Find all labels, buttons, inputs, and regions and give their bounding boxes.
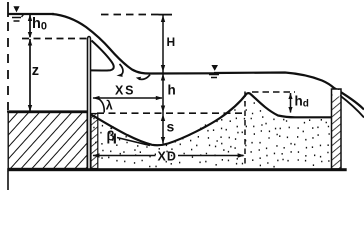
svg-text:XS: XS — [115, 84, 135, 98]
wire left wall extension below floor — [7, 171, 9, 190]
component weir gate plate — [88, 37, 91, 170]
svg-text:s: s — [167, 119, 175, 135]
dimension z vertical line with arrows — [28, 39, 32, 112]
wire dashed dune crest level line for hd — [252, 91, 295, 93]
wire tailwater surface over end sill — [214, 73, 364, 110]
wire dashed vertical line at dune crest — [244, 92, 246, 165]
wire left flume wall upper solid segment — [7, 2, 9, 17]
sand stipple dots — [93, 102, 329, 167]
svg-text:z: z — [32, 63, 39, 79]
node roller curl at jet toe — [136, 75, 150, 81]
dimension hd vertical arrow — [288, 93, 292, 113]
svg-text:λ: λ — [106, 99, 113, 113]
wire flume floor line — [7, 168, 347, 171]
label XD — [156, 150, 179, 161]
node beta angle tangent line — [117, 138, 150, 146]
wire upstream water surface line — [8, 13, 54, 15]
svg-text:h: h — [168, 83, 176, 98]
wire falling water surface (upper nappe) — [52, 14, 214, 74]
wire lower overfall sheet line — [340, 96, 364, 118]
wire scour hole and dune profile — [91, 93, 331, 145]
dimension XD horizontal arrow — [93, 153, 245, 157]
wire dashed original bed level line — [97, 112, 244, 114]
dimension h0 vertical line with arrows — [28, 15, 32, 39]
component downstream end sill wall (hatched) — [332, 89, 342, 169]
node roller curl near gate — [117, 64, 123, 77]
svg-text:H: H — [167, 35, 176, 49]
dimension H h s vertical line — [159, 15, 173, 144]
component gate foundation strip (hatched) — [91, 114, 98, 169]
component upstream apron block (hatched) — [8, 113, 87, 169]
node lambda angle arc — [99, 99, 104, 113]
wire upstream ground surface line — [7, 110, 88, 112]
wire left flume wall dashed segment — [7, 22, 9, 110]
wire lower nappe surface from gate crest — [91, 41, 114, 71]
node downstream water surface marker (nabla) — [209, 65, 219, 78]
wire dashed crest-level line — [22, 38, 87, 40]
node upstream water surface marker (nabla) — [12, 6, 24, 21]
wire dashed upstream-level transfer line to H dimension — [101, 14, 163, 16]
dimension XS horizontal arrow — [93, 96, 163, 100]
